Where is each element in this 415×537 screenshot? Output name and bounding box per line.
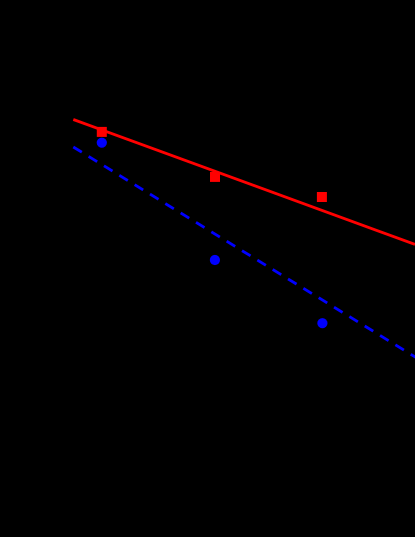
blue circle marker 2 xyxy=(210,255,220,265)
blue circle marker 1 xyxy=(97,138,107,148)
red square marker 1 xyxy=(97,127,107,137)
blue circle marker 3 xyxy=(317,318,327,328)
blue dashed fit line xyxy=(73,147,415,358)
red square marker 2 xyxy=(210,172,220,182)
red solid fit line xyxy=(73,120,415,245)
red square marker 3 xyxy=(317,192,327,202)
